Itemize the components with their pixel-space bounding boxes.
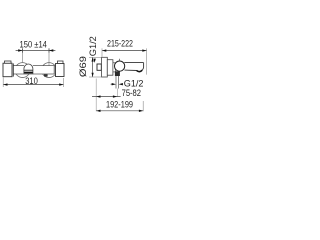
dim 75-82 line [92,96,121,98]
dim Ø69 bottom arrow [92,73,94,77]
escutcheon circle left [15,63,30,78]
spout dome aerator band [24,71,33,73]
svg-text:150 ±14: 150 ±14 [20,39,47,49]
dim 310 left arrow [3,83,7,85]
bar top edge right segment [33,65,54,67]
dim 310 left ext line [2,77,4,87]
dim 215-222 right ext line [146,48,148,74]
front view: centerline left connection [22,48,24,62]
shower outlet nub front [44,74,48,76]
spout bottom line [125,69,137,71]
dim 150±14 right arrow [49,49,53,51]
svg-text:192-199: 192-199 [106,100,133,110]
centerline tick above circle [119,59,121,61]
spout top line [124,62,143,64]
outlet pipe ext line [116,89,118,98]
dim 75-82 left arrow [96,95,100,97]
left handle ring [12,63,14,76]
svg-text:Ø69: Ø69 [78,56,88,77]
dim 150±14 right tick [48,48,50,52]
right handle top step [58,61,64,64]
outlet pipe right line [118,76,120,89]
label G1/2 outlet left arrow line [111,83,113,85]
dim Ø69 line [92,57,94,77]
dim 215-222 left ext line [101,48,103,56]
dim 310 right arrow [59,83,63,85]
escutcheon circle right [42,63,57,78]
outlet nub side [115,71,120,76]
spout front dome [24,64,33,74]
dim 150±14 left tick [22,48,24,52]
dim 215-222 left arrow [102,49,106,51]
dim 192-199 line [96,110,143,112]
side body block [107,60,113,75]
dim 215-222 line [102,50,147,52]
spout end [141,63,144,71]
label G1/2 wall arrow [93,59,95,63]
handle circle side [115,61,125,71]
dim 150±14 left arrow [18,49,22,51]
dim 192-199 right ext line [142,101,144,111]
spout aerator lip [137,70,143,71]
spout dome upper ring [24,69,33,71]
left handle body [3,63,12,76]
dim Ø69 top arrow [92,57,94,61]
dim 310 right ext line [63,78,65,87]
svg-text:G1/2: G1/2 [88,36,98,56]
right bar end ring [53,66,55,74]
bar top edge left segment [13,65,24,67]
dim 192-199 left arrow [96,110,100,112]
bar bottom edge [13,73,54,75]
label G1/2 outlet left arrow [112,83,116,85]
side escutcheon [102,57,108,77]
label G1/2 outlet right arrow [119,83,123,85]
right handle body [56,64,65,77]
dim 215-222 right arrow [142,49,146,51]
svg-text:215-222: 215-222 [107,39,133,49]
side view: wall ext line [95,79,97,112]
svg-text:G1/2: G1/2 [124,78,144,88]
outlet pipe left line [115,76,117,89]
dim 310 line [3,84,63,86]
mixer bar body fill [13,66,54,74]
front view: centerline right connection [48,48,50,70]
left handle top step [5,61,12,63]
svg-text:75-82: 75-82 [122,88,141,98]
dim 192-199 right arrow [139,110,143,112]
wall pipe stub [97,64,101,70]
dim Ø69 bottom ext tick [89,76,101,78]
dim Ø69 top ext tick [89,56,101,58]
dim 75-82 right arrow [113,95,117,97]
side neck [113,63,116,72]
dim 150±14 line [16,50,56,52]
